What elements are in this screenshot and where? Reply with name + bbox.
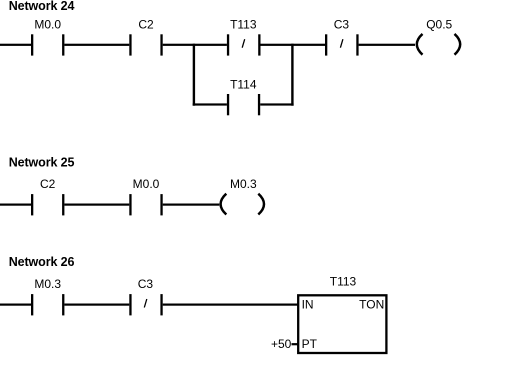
coil Q0.5 [417,17,460,54]
svg-text:Network 25: Network 25 [9,156,75,170]
wire rung1 M0.0 to C2 [64,44,129,46]
contact C3 (normally closed) [325,17,359,55]
svg-text:TON: TON [359,297,384,311]
wire rung2 C2 to M0.0 [64,204,129,206]
svg-text:+50: +50 [271,337,292,351]
svg-text:PT: PT [302,337,318,351]
contact C3 (rung3, normally closed) [129,277,162,315]
wire rung3 M0.3 to C3 [64,304,129,306]
svg-text:Network 26: Network 26 [9,255,75,269]
junction right branch vertical [291,44,293,106]
svg-text:M0.3: M0.3 [34,277,61,291]
svg-text:C2: C2 [138,17,154,31]
svg-text:C3: C3 [138,277,154,291]
svg-text:M0.3: M0.3 [230,177,257,191]
wire branch lower left [193,103,227,105]
contact C2 (rung2) [31,177,64,215]
contact C2 [129,17,162,55]
svg-text:Network 24: Network 24 [9,0,75,13]
svg-text:T113: T113 [330,275,357,289]
wire branch lower right [260,103,293,105]
contact M0.0 (rung2) [129,177,162,215]
wire rung1 T113 to contact C3 (through right branch junction) [261,44,326,46]
svg-text:IN: IN [302,297,314,311]
wire rung2 M0.0 to coil M0.3 [163,204,220,206]
junction left branch vertical [193,44,195,106]
wire rung1 C2 to contact T113 (through left branch junction) [163,44,227,46]
contact T114 (parallel branch) [227,77,260,115]
svg-text:M0.0: M0.0 [133,177,160,191]
timer T113 TON box [298,275,386,354]
svg-text:T113: T113 [230,17,257,31]
wire rung3 left rail to contact M0.3 [0,304,31,306]
svg-text:M0.0: M0.0 [34,17,61,31]
wire PT pin tick [292,343,299,345]
coil M0.3 [221,177,264,214]
contact M0.0 [31,17,64,55]
wire rung2 left rail to contact C2 [0,204,31,206]
svg-text:T114: T114 [230,77,257,91]
wire rung1 C3 to coil Q0.5 [359,44,415,46]
wire rung1 left rail to contact M0.0 [0,44,31,46]
contact M0.3 (rung3) [31,277,64,315]
svg-text:C2: C2 [40,177,56,191]
contact T113 (normally closed) [227,17,261,55]
wire rung3 C3 to timer box IN pin [163,304,299,306]
svg-text:C3: C3 [334,17,350,31]
svg-text:Q0.5: Q0.5 [426,17,452,31]
